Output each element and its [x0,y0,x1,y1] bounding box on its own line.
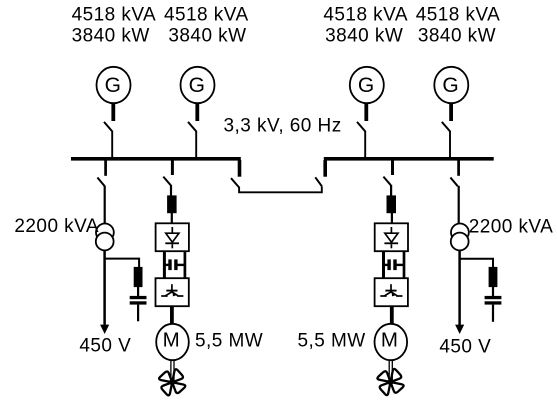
svg-text:4518 kVA: 4518 kVA [164,5,249,26]
capacitor: filter capacitor left [130,296,147,305]
wire: G3 breaker to busbar [364,131,366,159]
svg-text:3840 kW: 3840 kW [168,26,246,47]
breaker: G4 circuit breaker [442,122,450,131]
svg-text:4518 kVA: 4518 kVA [323,5,408,26]
svg-text:2200 kVA: 2200 kVA [469,216,554,237]
breaker: G1 circuit breaker [104,122,112,131]
wire: T2 secondary feeder down [458,250,461,327]
svg-text:450 V: 450 V [79,336,131,357]
capacitor C1: DC link capacitor [165,259,185,270]
wire: T1 secondary feeder down [103,250,106,327]
transformer T2 (2200 kVA) [451,224,469,251]
svg-text:G: G [105,74,122,97]
reactor: converter 1 line reactor (black block) [167,195,177,213]
wire: G1 lead [111,103,115,121]
wire: bus-tie link [239,186,322,192]
inverter U2 (transistor inverter box) [156,278,189,306]
svg-text:M: M [381,328,399,351]
svg-text:G: G [189,74,206,97]
svg-text:3,3 kV, 60 Hz: 3,3 kV, 60 Hz [224,115,342,136]
capacitor C2: DC link capacitor [384,259,404,270]
generator G2 [181,67,215,103]
breaker: feeder 2 [163,177,170,186]
wire: G4 lead [449,103,453,121]
wire: G1 breaker to busbar [111,131,113,159]
generator G3 [350,67,384,103]
rectifier U1 (thyristor bridge box) [156,223,189,251]
svg-text:4518 kVA: 4518 kVA [72,5,157,26]
label: generator 4 rating 4518 kVA / 3840 kW [416,5,501,47]
wire: capacitor stub left [137,305,139,322]
svg-text:G: G [358,74,375,97]
breaker: G3 circuit breaker [357,122,365,131]
propeller 1 [159,369,186,396]
rectifier U3 (thyristor bridge box) [375,223,408,251]
wire: feeder 3 drop from busbar [391,160,394,175]
reactor: filter reactor left (black block) [134,267,143,287]
wire: bus-tie drop from right busbar [323,160,327,177]
wire: feeder 1 breaker to transformer T1 [104,186,106,224]
svg-text:M: M [163,328,181,351]
wire: DC link negative right [403,251,406,279]
wire: inverter to motor M2 [390,306,394,325]
wire: feeder 4 drop from busbar [457,160,460,176]
wire: DC link positive right [382,251,385,279]
wire: DC link negative left [184,251,187,279]
transformer T1 (2200 kVA) [96,224,114,251]
label: generator 3 rating 4518 kVA / 3840 kW [323,5,408,47]
busbar: left 3,3 kV section [71,157,241,161]
wire: filter tap right [460,259,493,268]
svg-text:3840 kW: 3840 kW [325,26,403,47]
reactor: filter reactor right (black block) [489,267,498,287]
shaft: motor 2 to propeller [389,360,392,381]
wire: DC link positive left [163,251,166,279]
breaker: feeder 4 [450,178,457,187]
breaker: feeder 3 [383,177,390,186]
motor M2 (5,5 MW propulsion motor) [375,324,408,360]
label: generator 2 rating 4518 kVA / 3840 kW [164,5,249,47]
wire: reactor to capacitor right [492,287,494,296]
wire: feeder 4 breaker to transformer T2 [458,186,460,224]
wire: reactor to capacitor left [137,287,139,296]
busbar: right 3,3 kV section [324,157,494,161]
breaker: G2 circuit breaker [188,122,196,131]
wire: capacitor stub right [492,305,494,322]
breaker: bus-tie right [315,177,322,186]
arrow: 450 V outgoing feeder right [455,325,464,334]
svg-text:3840 kW: 3840 kW [418,26,496,47]
svg-text:5,5 MW: 5,5 MW [195,330,263,351]
motor M1 (5,5 MW propulsion motor) [156,324,189,360]
wire: reactor to rectifier U3 [391,213,393,224]
propeller 2 [377,368,404,395]
wire: G2 lead [195,103,199,121]
svg-text:4518 kVA: 4518 kVA [416,5,501,26]
breaker: bus-tie left [231,178,239,187]
wire: G3 lead [364,103,368,121]
breaker: feeder 1 [97,178,104,187]
wire: G4 breaker to busbar [449,131,451,159]
wire: feeder 3 breaker to reactor [390,185,392,196]
wire: feeder 2 breaker to reactor [170,185,172,196]
capacitor: filter capacitor right [485,296,502,305]
svg-text:450 V: 450 V [439,336,491,357]
generator G1 [97,67,131,103]
arrow: 450 V outgoing feeder left [100,325,109,334]
shaft: motor 1 to propeller [171,360,174,381]
wire: feeder 1 drop from busbar [104,160,107,176]
wire: filter tap left [105,259,140,268]
wire: reactor to rectifier U1 [171,213,173,224]
svg-text:3840 kW: 3840 kW [72,26,150,47]
wire: G2 breaker to busbar [195,131,197,159]
inverter U4 (transistor inverter box) [375,278,408,306]
wire: inverter to motor M1 [170,306,174,325]
wire: bus-tie drop from left busbar [238,160,242,177]
reactor: converter 2 line reactor (black block) [387,195,397,213]
generator G4 [434,67,468,103]
wire: feeder 2 drop from busbar [171,160,174,175]
svg-text:G: G [442,74,459,97]
svg-text:5,5 MW: 5,5 MW [298,331,366,352]
label: generator 1 rating 4518 kVA / 3840 kW [72,5,157,47]
svg-text:2200 kVA: 2200 kVA [14,216,99,237]
